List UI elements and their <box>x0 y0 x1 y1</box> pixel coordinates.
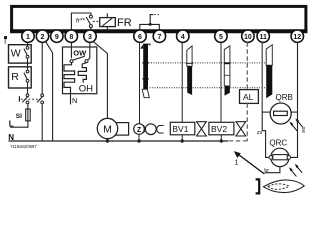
svg-text:fr**: fr** <box>76 17 86 24</box>
fuel valve BV2 <box>209 122 234 135</box>
junction dot M <box>106 139 109 142</box>
wire t12 QRB to QRC right <box>291 112 298 157</box>
terminal 4 <box>177 30 189 42</box>
svg-text:7: 7 <box>157 34 161 41</box>
svg-text:R: R <box>11 71 19 83</box>
svg-text:AL: AL <box>243 92 254 102</box>
svg-text:2: 2 <box>41 34 45 41</box>
terminal 8 <box>65 30 77 42</box>
wire t2 to switch <box>41 42 43 93</box>
light arrows QRC <box>289 164 302 177</box>
wire QRB right to t12 <box>291 111 297 113</box>
terminal 12 <box>291 30 303 42</box>
svg-text:9: 9 <box>55 34 59 41</box>
flame holder bracket <box>256 179 260 193</box>
junction dot BV2 <box>220 139 223 142</box>
flame inner dashed <box>268 184 289 190</box>
svg-text:1: 1 <box>234 158 238 167</box>
svg-text:SI: SI <box>16 113 22 120</box>
dashed wire t10 to AL <box>246 42 248 89</box>
svg-text:Z: Z <box>137 127 142 134</box>
crop mark left edge <box>4 36 7 39</box>
svg-text:QRB: QRB <box>276 93 293 102</box>
svg-text:M: M <box>103 123 112 135</box>
svg-text:sw: sw <box>300 127 306 134</box>
photocell QRB <box>270 103 291 124</box>
cam bar at t4 <box>186 46 193 95</box>
valve symbol BV2 <box>236 122 246 136</box>
svg-text:4: 4 <box>181 34 185 41</box>
wire t3 into box <box>88 42 90 60</box>
contact in W <box>26 47 29 50</box>
dotted phase line 1 <box>149 62 266 64</box>
valve symbol BV1 <box>197 122 207 136</box>
cam bar I at t6 <box>140 44 150 98</box>
svg-text:7119a02/0697: 7119a02/0697 <box>10 144 37 149</box>
dashed wire AL to bus <box>246 103 248 140</box>
terminal 5 <box>215 30 227 42</box>
wire t8 loop up <box>71 13 91 30</box>
svg-text:L: L <box>9 120 14 129</box>
svg-text:br: br <box>264 168 269 174</box>
svg-text:11: 11 <box>259 34 267 41</box>
control box U1 outline <box>12 6 306 31</box>
wire t11 QRB to zs corner <box>262 112 269 157</box>
wire t8 to OW contact <box>70 42 72 58</box>
contact in R <box>26 70 29 73</box>
svg-text:5: 5 <box>219 34 223 41</box>
viewing arrow 1 <box>234 151 265 174</box>
wire fuse to L <box>10 121 28 127</box>
photocell QRC <box>271 148 289 166</box>
svg-text:zs: zs <box>257 130 263 136</box>
wire t6 to Z <box>139 42 141 123</box>
heater element right meander <box>78 63 86 83</box>
fuel valve BV1 <box>170 122 195 135</box>
spark gap symbol <box>145 124 156 135</box>
terminal 11 <box>257 30 269 42</box>
alarm AL box <box>240 90 259 104</box>
wire BV2 to bus <box>220 135 222 141</box>
mechanical link dashes <box>93 20 100 22</box>
switch actuator tick <box>18 96 20 101</box>
ignition transformer Z <box>134 124 145 135</box>
svg-text:OH: OH <box>79 83 93 94</box>
terminal 7 <box>153 30 165 42</box>
main switch pole a <box>26 94 29 97</box>
terminal 2 <box>36 30 48 42</box>
svg-text:6: 6 <box>138 34 142 41</box>
thermostat W box <box>9 45 32 63</box>
neutral bus N <box>8 140 228 142</box>
wire t2 diagonal to bus <box>45 41 52 141</box>
wire t1 to W <box>27 42 29 46</box>
svg-text:QRC: QRC <box>269 138 287 147</box>
junction dot BV1 <box>181 139 184 142</box>
svg-text:BV2: BV2 <box>211 124 227 134</box>
stub N under preheater <box>70 94 72 105</box>
wire switch b down to N bus <box>41 104 43 141</box>
svg-text:FR: FR <box>117 17 132 29</box>
svg-text:BV1: BV1 <box>172 124 188 134</box>
svg-text:8: 8 <box>69 34 73 41</box>
heater element left meander <box>64 63 75 94</box>
wire R to switch <box>27 82 29 94</box>
svg-text:OW: OW <box>73 49 87 58</box>
jumper 6-7 <box>140 24 160 30</box>
wire t12 down <box>297 42 299 112</box>
terminal 9 <box>51 30 63 42</box>
wire Z to bus <box>138 134 140 141</box>
contact fr <box>89 15 92 18</box>
motor capacitor box <box>114 123 129 136</box>
motor M <box>97 118 117 138</box>
wire t5 to BV2 <box>220 42 222 122</box>
switch coupling dashes <box>21 98 41 100</box>
thermostat R box <box>9 67 32 88</box>
relay FR <box>100 13 116 31</box>
wire W to R <box>27 58 29 70</box>
svg-text:10: 10 <box>244 34 252 41</box>
wire t3 diagonal to motor <box>93 41 108 118</box>
dotted phase line 2 <box>150 87 266 89</box>
wire M to bus <box>106 139 108 141</box>
svg-text:W: W <box>11 48 21 60</box>
terminal 6 <box>134 30 146 42</box>
svg-text:1: 1 <box>26 34 30 41</box>
wire QRC bottom br <box>265 167 280 173</box>
wire t11 down <box>261 42 263 112</box>
preheater box OW/OH <box>63 47 97 94</box>
main switch pole b <box>41 94 44 97</box>
contact OW <box>70 60 73 63</box>
terminal 1 <box>22 30 34 42</box>
terminal 3 <box>84 30 96 42</box>
cam bar at t5 <box>224 46 230 96</box>
svg-text:12: 12 <box>293 34 301 41</box>
light arrows QRB <box>290 118 303 130</box>
wire t4 to BV1 <box>181 42 183 122</box>
terminal 10 <box>242 30 254 42</box>
svg-text:N: N <box>72 96 77 105</box>
cam bar at t11 <box>266 45 272 99</box>
wire switch to fuse <box>27 104 29 109</box>
svg-text:3: 3 <box>88 34 92 41</box>
wire BV1 to bus <box>181 135 183 141</box>
fuse SI <box>26 109 31 121</box>
flame <box>263 180 304 193</box>
junction dot Z <box>137 139 140 142</box>
wire into QRB left <box>262 111 270 113</box>
